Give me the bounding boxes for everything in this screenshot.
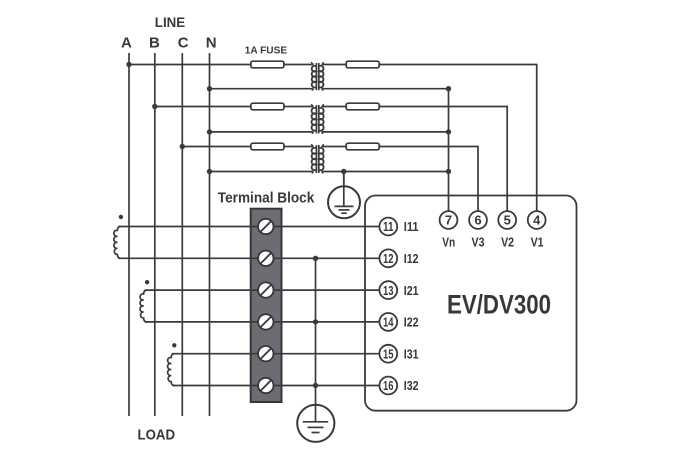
svg-text:14: 14 (383, 316, 394, 330)
svg-text:V3: V3 (472, 236, 485, 250)
svg-text:V1: V1 (531, 236, 544, 250)
svg-text:11: 11 (383, 220, 394, 234)
svg-text:B: B (149, 35, 160, 52)
svg-text:I32: I32 (404, 379, 419, 393)
svg-text:15: 15 (383, 347, 394, 361)
svg-text:LOAD: LOAD (138, 426, 176, 443)
svg-text:I12: I12 (404, 252, 419, 266)
svg-text:I11: I11 (404, 220, 419, 234)
svg-text:LINE: LINE (155, 14, 185, 30)
svg-text:Vn: Vn (442, 236, 455, 250)
svg-text:N: N (206, 35, 217, 52)
svg-text:7: 7 (445, 213, 452, 228)
svg-text:EV/DV300: EV/DV300 (447, 290, 551, 320)
svg-text:I22: I22 (404, 316, 419, 330)
svg-text:13: 13 (383, 284, 394, 298)
svg-text:V2: V2 (501, 236, 514, 250)
svg-text:5: 5 (504, 213, 511, 228)
svg-text:A: A (121, 35, 132, 52)
svg-text:6: 6 (474, 213, 481, 228)
svg-text:16: 16 (383, 379, 394, 393)
svg-text:I21: I21 (404, 284, 419, 298)
svg-text:Terminal Block: Terminal Block (218, 190, 315, 206)
svg-text:I31: I31 (404, 347, 419, 361)
svg-text:4: 4 (533, 213, 541, 228)
svg-text:C: C (178, 35, 189, 52)
svg-text:1A FUSE: 1A FUSE (245, 44, 287, 56)
svg-text:12: 12 (383, 252, 394, 266)
